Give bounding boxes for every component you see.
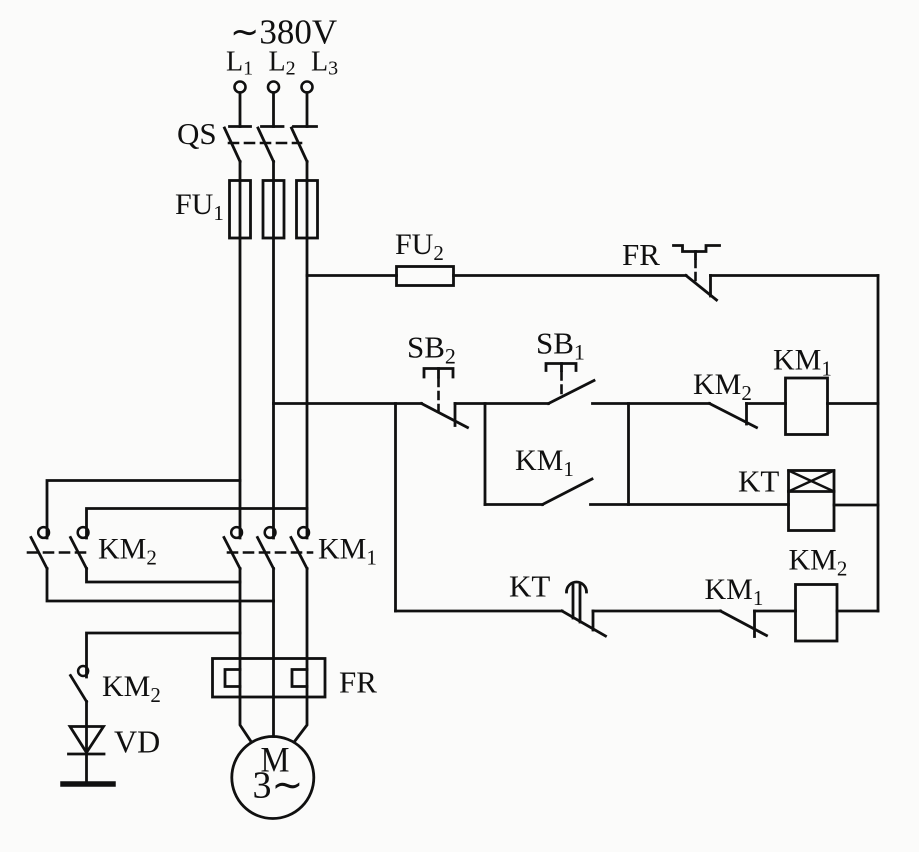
fuse FU1 pole 2 <box>263 181 284 239</box>
terminal L3 <box>302 82 313 93</box>
switch QS pole 2 <box>258 127 283 162</box>
contactor KM2 linkage dashed <box>28 551 90 554</box>
coil KT time relay <box>789 471 835 531</box>
wire row3 to KT coil <box>591 503 789 506</box>
svg-text:KM2: KM2 <box>98 533 157 570</box>
wire row3 left drop <box>484 404 487 505</box>
wire KT coil to rail <box>834 504 878 507</box>
contactor KM2 pole B <box>71 527 89 568</box>
motor M <box>232 737 314 819</box>
contact KT delayed NO <box>562 582 606 636</box>
diode VD <box>69 702 105 783</box>
wire right rail <box>877 276 880 612</box>
wire motor lead U below KM1 <box>240 569 251 742</box>
wire KM2 top A to L1 <box>47 481 240 539</box>
contactor KM2 pole A <box>31 527 49 568</box>
switch QS pole 1 <box>225 127 251 162</box>
svg-text:KT: KT <box>738 464 779 499</box>
svg-text:QS: QS <box>177 116 217 151</box>
svg-text:KM1: KM1 <box>515 444 574 481</box>
contact FR NC with reset head <box>674 246 720 301</box>
svg-text:KM1: KM1 <box>318 533 377 570</box>
svg-text:KM1: KM1 <box>705 573 764 610</box>
svg-text:3∼: 3∼ <box>253 765 304 807</box>
svg-text:KM1: KM1 <box>773 344 832 381</box>
ground <box>63 781 113 787</box>
wire KM2 bottom A to L2 <box>47 569 274 602</box>
wire L3 drop to QS <box>306 93 309 127</box>
wire row1 FU2 to FR contact <box>454 274 687 277</box>
svg-text:SB1: SB1 <box>536 326 585 365</box>
contact KM1 NO self-latch <box>543 479 593 505</box>
wire row1 FR to right rail <box>711 274 879 277</box>
wire L3 QS to FU1 <box>306 162 309 181</box>
pushbutton SB1 NO <box>546 364 594 404</box>
wire row3 right riser <box>627 404 630 505</box>
contactor KM1 main pole 2 <box>258 527 276 568</box>
pushbutton SB2 NC <box>422 369 468 428</box>
contactor KM1 main pole 1 <box>224 527 242 568</box>
wire row2 to KM1 coil <box>747 402 786 405</box>
svg-text:KM2: KM2 <box>693 368 752 405</box>
wire L2 drop to QS <box>272 93 275 127</box>
contact KM2 brake pole <box>71 666 89 702</box>
wire KM2 top B to L3 <box>87 509 308 539</box>
terminal L2 <box>268 82 279 93</box>
contact KM1 NC interlock <box>721 611 767 637</box>
fuse FU1 pole 3 <box>297 181 318 239</box>
wire row4 to KM2 coil <box>755 610 796 613</box>
wire L2 vertical to KM1 contact <box>272 238 275 538</box>
terminal L1 <box>235 82 246 93</box>
wire row2 SB1 to KM2 contact <box>593 402 710 405</box>
wire motor lead V below KM1 <box>272 569 275 737</box>
wire L1 QS to FU1 <box>239 162 242 181</box>
svg-text:FU2: FU2 <box>395 228 444 265</box>
fuse FU2 <box>397 267 454 286</box>
wire motor lead W below KM1 <box>295 569 308 742</box>
wire row4 from left rail <box>396 610 563 613</box>
wire row4 KT to KM1 NC <box>593 610 721 613</box>
svg-text:VD: VD <box>114 724 160 760</box>
svg-text:KT: KT <box>509 569 550 604</box>
svg-text:FR: FR <box>339 665 377 700</box>
svg-text:KM2: KM2 <box>102 670 161 707</box>
wire L3 vertical to KM1 contact <box>306 238 309 538</box>
wire KM2 coil to rail <box>837 610 878 613</box>
svg-text:KM2: KM2 <box>789 544 848 581</box>
wire L1 vertical to KM1 contact <box>239 238 242 538</box>
contactor KM1 linkage dashed <box>228 551 312 554</box>
fuse FU1 pole 1 <box>230 181 251 239</box>
wire left rail <box>394 404 397 612</box>
switch QS pole 3 <box>292 127 317 162</box>
wire KM1 coil to rail <box>828 402 879 405</box>
wire L2 QS to FU1 <box>272 162 275 181</box>
svg-text:FU1: FU1 <box>175 188 224 225</box>
FR heater element 2 <box>292 670 307 687</box>
wire L1 drop to QS <box>239 93 242 127</box>
wire row2 from L2 <box>274 402 422 405</box>
contact KM2 NC <box>710 404 757 428</box>
wire row3 start <box>485 503 543 506</box>
contactor KM1 main pole 3 <box>291 527 309 568</box>
wire row2 SB2 to SB1 <box>455 402 549 405</box>
svg-text:FR: FR <box>622 237 660 272</box>
coil KM1 <box>786 378 828 435</box>
wire row1 from L3 to FU2 <box>307 274 397 277</box>
switch QS linkage dashed <box>229 142 301 145</box>
thermal relay FR heater box <box>213 659 326 698</box>
wire VD branch horizontal <box>87 633 241 677</box>
wire KM2 bottom B to L1 <box>87 569 241 583</box>
svg-text:SB2: SB2 <box>407 330 456 369</box>
coil KM2 <box>796 585 838 642</box>
FR heater element 1 <box>225 670 240 687</box>
